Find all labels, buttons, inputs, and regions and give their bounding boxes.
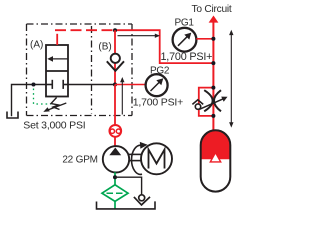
drain check valve seat — [134, 197, 150, 205]
node B top junction — [113, 28, 117, 32]
drain check valve ball — [139, 195, 145, 201]
wire PG1 to main — [196, 38, 213, 40]
node B bottom junction — [113, 83, 117, 87]
svg-text:(B): (B) — [98, 41, 111, 52]
valve A body — [46, 45, 68, 97]
node PG1 junction — [211, 37, 215, 41]
gauge PG1 — [173, 28, 197, 52]
valve A blocked ports bottom position — [46, 80, 68, 89]
wire tank to valve A — [12, 85, 47, 117]
valve A spring — [51, 98, 60, 110]
red stub valve A to pilot bus — [56, 34, 58, 45]
accumulator gas triangle — [210, 153, 220, 162]
node flow control bottom — [211, 114, 215, 118]
flow control adjustment arrow — [200, 99, 224, 110]
red dashed pilot bus — [55, 29, 114, 31]
main pressure line red — [212, 21, 214, 132]
node pump suction — [113, 175, 117, 179]
svg-text:(A): (A) — [30, 39, 43, 50]
enclosure dash-dot border (component box) — [27, 24, 133, 116]
flow control valve arcs — [204, 90, 212, 111]
node flow control top — [211, 86, 215, 90]
flow annotation arrow right — [118, 35, 156, 37]
tank T1 — [7, 112, 18, 119]
svg-text:1,700 PSI+: 1,700 PSI+ — [133, 96, 183, 108]
valve A arrow top position — [51, 58, 69, 60]
check valve B line — [114, 30, 116, 84]
up-flow annotation arrow — [121, 81, 123, 115]
flow control bypass loop red — [199, 88, 214, 116]
svg-text:1,700 PSI+: 1,700 PSI+ — [161, 51, 213, 63]
rotation arrow — [132, 145, 142, 174]
motor letter M — [149, 150, 165, 169]
valve A adjustment arrow — [47, 103, 67, 111]
svg-text:PG2: PG2 — [150, 66, 170, 77]
filter element dashed — [107, 192, 124, 194]
pump P1 — [103, 146, 129, 172]
filter F1 — [102, 185, 128, 202]
accumulator shell — [201, 130, 231, 191]
To Circuit arrowhead — [209, 16, 219, 23]
red supply line down to unloader valve — [114, 85, 116, 127]
pilot drain line (green dotted) — [34, 89, 52, 105]
green pump to filter line — [114, 172, 116, 185]
pump outlet triangle — [109, 148, 121, 156]
red line to pump — [114, 137, 116, 148]
enclosure divider between (A) and (B) — [91, 26, 93, 114]
red line B junction to main line — [115, 30, 213, 63]
unloader valve (red circle with orifices) — [109, 125, 121, 137]
svg-text:22 GPM: 22 GPM — [62, 155, 97, 166]
shaft coupling — [129, 153, 142, 155]
gauge PG2 — [146, 74, 168, 96]
red wire junction to PG2 — [115, 84, 146, 86]
node pilot junction — [32, 83, 36, 87]
accumulator fluid red fill — [201, 130, 231, 159]
wire valve A to node B — [68, 84, 114, 86]
svg-text:To Circuit: To Circuit — [192, 4, 232, 15]
tank return line — [97, 201, 156, 209]
svg-text:Set 3,000 PSI: Set 3,000 PSI — [23, 120, 85, 132]
svg-text:PG1: PG1 — [175, 18, 195, 29]
motor M1 — [141, 143, 172, 174]
pressure rise-fall annotation arrow — [230, 33, 232, 125]
bypass check valve seat — [192, 100, 203, 105]
drain wire to check valve — [115, 177, 142, 195]
check valve B seat — [107, 61, 124, 71]
bypass check valve ball — [195, 104, 200, 109]
node B line junction — [211, 61, 215, 65]
green filter to tank line — [114, 201, 116, 208]
check valve B ball — [111, 54, 120, 63]
